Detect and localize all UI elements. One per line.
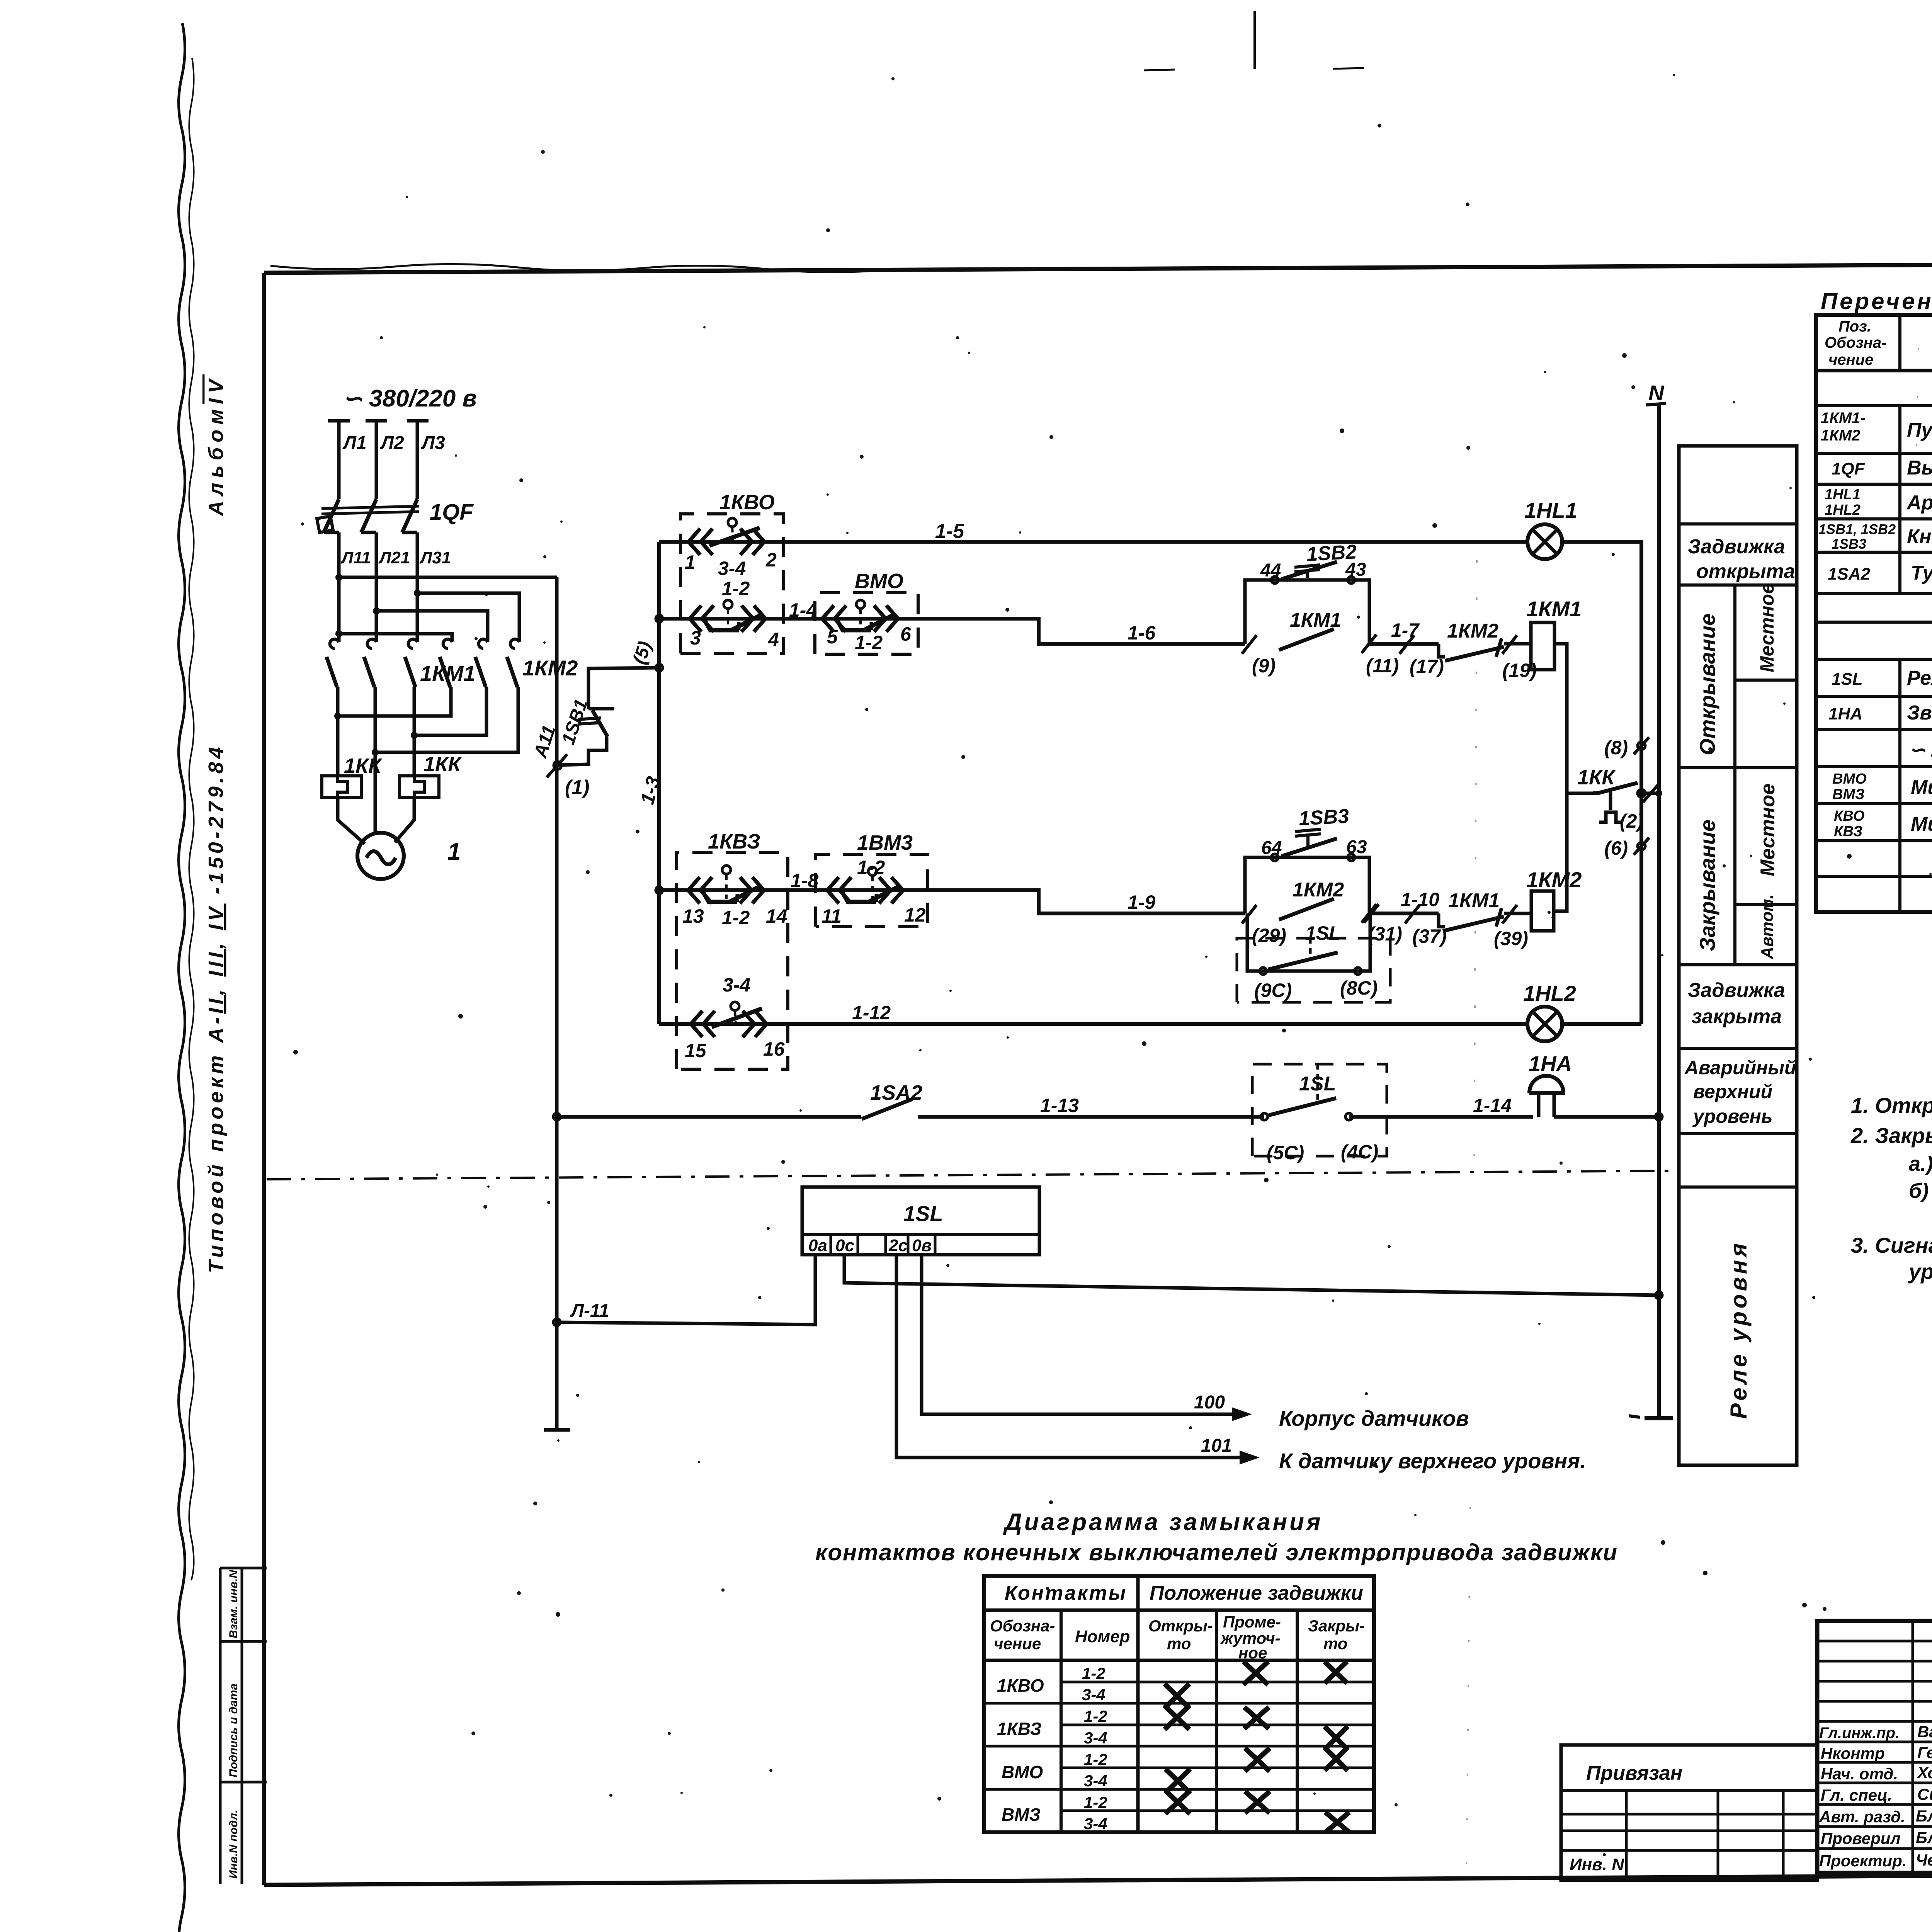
junction on L31: [414, 590, 421, 597]
svg-text:N: N: [1648, 381, 1665, 405]
svg-text:Герасимова: Герасимова: [1917, 1743, 1932, 1762]
level sensor 1SL terminal box: [802, 1187, 1039, 1255]
wire 1-7: [1369, 642, 1439, 646]
X marks closure diagram: [1165, 1662, 1349, 1832]
wire phase L1 top: [328, 421, 350, 499]
svg-text:Открывание: Открывание: [1695, 614, 1719, 755]
svg-text:16: 16: [763, 1038, 785, 1060]
svg-text:1-6: 1-6: [1128, 622, 1156, 644]
svg-text:4: 4: [768, 629, 779, 650]
svg-text:Инв.N подл.: Инв.N подл.: [227, 1810, 240, 1879]
svg-text:101: 101: [1201, 1435, 1232, 1456]
svg-text:Реле уровня: Реле уровня: [1726, 1240, 1752, 1419]
svg-text:то: то: [1323, 1634, 1347, 1653]
svg-text:Тумблер ТВ1-1: Тумблер ТВ1-1: [1911, 562, 1932, 584]
wire branch L21 to 1KM2 pole5: [376, 611, 488, 641]
svg-text:11: 11: [821, 905, 842, 927]
svg-text:1-12: 1-12: [852, 1002, 891, 1024]
svg-text:Поз.: Поз.: [1838, 318, 1871, 335]
svg-text:Л2: Л2: [380, 433, 404, 453]
svg-text:1-9: 1-9: [1128, 891, 1155, 913]
1SL auto dashed box: [1237, 938, 1390, 1002]
terminal (8) slash: [1634, 737, 1649, 754]
svg-text:1-10: 1-10: [1401, 889, 1439, 910]
junction 0c/bus: [1655, 1292, 1662, 1299]
svg-text:Взам. инв.N: Взам. инв.N: [227, 1570, 240, 1638]
svg-text:Положение задвижки: Положение задвижки: [1150, 1582, 1363, 1604]
svg-text:1КМ2: 1КМ2: [1526, 867, 1582, 892]
svg-text:1КМ2: 1КМ2: [1821, 427, 1860, 444]
separator dash-dot line: [267, 1171, 1677, 1179]
svg-text:чение: чение: [1828, 351, 1873, 368]
circuit breaker 1QF: [317, 499, 419, 532]
svg-text:3. Сигнализация положения з: 3. Сигнализация положения задвижки и пов…: [1851, 1233, 1932, 1257]
svg-text:1: 1: [447, 838, 461, 865]
svg-text:Обозна-: Обозна-: [1825, 334, 1886, 351]
contactor 1KM2 main contacts: [440, 639, 519, 687]
svg-text:1-2: 1-2: [1084, 1750, 1107, 1769]
svg-text:1КМ2: 1КМ2: [522, 656, 578, 680]
svg-text:Васильев: Васильев: [1917, 1723, 1932, 1741]
svg-text:Обозна-: Обозна-: [990, 1617, 1055, 1635]
lamp 1HL2: [1527, 1007, 1562, 1041]
svg-text:Задвижка: Задвижка: [1688, 979, 1785, 1002]
svg-text:КВЗ: КВЗ: [1834, 823, 1862, 840]
svg-text:(4С): (4С): [1341, 1141, 1378, 1163]
bus N top mark: [1646, 403, 1666, 405]
svg-text:(8С): (8С): [1340, 977, 1378, 999]
svg-text:1SВ3: 1SВ3: [1832, 536, 1866, 552]
svg-text:(39): (39): [1494, 928, 1528, 949]
svg-text:Привязан: Привязан: [1586, 1762, 1682, 1784]
junction pole1 bottom: [334, 713, 341, 719]
svg-text:1: 1: [685, 551, 696, 573]
svg-text:контактов конечных выключате: контактов конечных выключателей электроп…: [815, 1539, 1618, 1565]
contactor 1KM1 main contacts: [327, 639, 417, 687]
wire A-11: [557, 1255, 815, 1325]
svg-text:Местное: Местное: [1757, 784, 1779, 876]
svg-text:Блувштейн: Блувштейн: [1916, 1807, 1932, 1825]
svg-text:63: 63: [1346, 837, 1367, 857]
terminal slash at bus side: [1643, 784, 1658, 802]
svg-text:(9): (9): [1252, 655, 1276, 677]
svg-text:1-2: 1-2: [855, 632, 883, 653]
contact 1KM2 NC interlock: [1439, 638, 1531, 661]
wire pole3 down to thermal: [413, 735, 416, 776]
svg-text:Черкасова: Черкасова: [1916, 1851, 1932, 1869]
svg-text:43: 43: [1345, 560, 1366, 580]
left bottom rotated cells: [220, 1568, 267, 1884]
svg-text:1КМ1: 1КМ1: [1448, 889, 1500, 912]
svg-text:1-2: 1-2: [1084, 1793, 1107, 1811]
svg-text:1ВМ3: 1ВМ3: [857, 831, 913, 854]
svg-text:Пускатель магнитный ПМЕ-114: Пускатель магнитный ПМЕ-114: [1907, 419, 1932, 441]
wire lamp 1HL2 to inner vertical: [1562, 1022, 1641, 1026]
pushbutton 1SB3 branch: [1245, 829, 1369, 913]
wire crossover pole3-pole5: [414, 687, 486, 735]
svg-text:1КК: 1КК: [344, 754, 383, 777]
junction 1KK to inner vertical: [1638, 789, 1645, 797]
contact 1KM1 aux (seal-in): [1242, 629, 1376, 654]
svg-text:Хомяк: Хомяк: [1917, 1764, 1932, 1782]
relay contact 1SL auto branch: [1247, 913, 1370, 975]
svg-text:1-14: 1-14: [1473, 1095, 1512, 1116]
lamp 1HL1: [1527, 524, 1562, 559]
svg-text:1КВО: 1КВО: [997, 1675, 1044, 1696]
svg-text:ВМО: ВМО: [855, 570, 903, 593]
svg-text:1КВО: 1КВО: [719, 491, 775, 514]
wire crossover pole2-pole6: [375, 687, 518, 752]
svg-text:3: 3: [690, 627, 701, 649]
svg-text:Диаграмма замыкания: Диаграмма замыкания: [1003, 1509, 1323, 1536]
microswitch 1VM3 dashed box: [816, 854, 928, 927]
svg-text:АльбомIV: АльбомIV: [204, 374, 228, 517]
contact 1VM3: [827, 867, 903, 903]
svg-text:Микропереключатели: Микропереключатели: [1911, 813, 1932, 835]
A11 bottom rail terminator: [544, 1428, 570, 1432]
junction 1-3/(5): [656, 664, 663, 671]
svg-text:1НL2: 1НL2: [1825, 502, 1861, 518]
svg-text:1КК: 1КК: [1577, 766, 1616, 789]
terminal (17) slash: [1400, 635, 1414, 654]
contact 1KM2 aux (seal-in): [1242, 899, 1376, 923]
contact 1KVO 1-2: [690, 600, 765, 632]
contact 1KVZ 1-2: [688, 866, 764, 903]
svg-text:∽ 220 в: ∽ 220 в: [1909, 739, 1932, 761]
svg-text:1HL1: 1HL1: [1524, 498, 1577, 522]
svg-text:3-4: 3-4: [1084, 1815, 1107, 1833]
svg-text:б) автоматическое, в зависим: б) автоматическое, в зависимости от уров…: [1909, 1179, 1932, 1202]
svg-text:1КМ1-: 1КМ1-: [1821, 410, 1866, 427]
terminal (39) slash: [1502, 905, 1517, 923]
svg-text:1-2: 1-2: [722, 578, 750, 599]
svg-text:∽ 380/220 в: ∽ 380/220 в: [342, 385, 477, 412]
wire phase drops below breaker: [339, 532, 417, 642]
contact 1KM1 NC interlock: [1439, 908, 1531, 930]
svg-text:Кнопка управления КЕ011: Кнопка управления КЕ011: [1907, 526, 1932, 548]
svg-text:1HL2: 1HL2: [1523, 981, 1576, 1005]
wire rung 1-4 / 1-6: [659, 619, 1245, 644]
svg-text:закрыта: закрыта: [1692, 1005, 1782, 1028]
wire A11 vertical feed: [555, 577, 559, 1428]
svg-text:1SВ3: 1SВ3: [1298, 805, 1350, 830]
svg-text:13: 13: [682, 905, 704, 927]
svg-text:1-2: 1-2: [1084, 1707, 1107, 1725]
motor M1: [357, 833, 404, 879]
svg-text:ВМО: ВМО: [1832, 771, 1867, 787]
junction bell/bus: [1655, 1113, 1662, 1120]
junction A11/A-11: [553, 1319, 560, 1326]
thermal relay 1KK left: [322, 776, 361, 798]
svg-text:Гл.инж.пр.: Гл.инж.пр.: [1819, 1725, 1900, 1742]
terminal (6) slash: [1634, 838, 1649, 855]
svg-text:Инв. N: Инв. N: [1570, 1855, 1624, 1874]
wire rung 1-12: [659, 1022, 1528, 1026]
svg-text:1КВЗ: 1КВЗ: [997, 1719, 1042, 1739]
junction on L21: [373, 607, 380, 614]
svg-text:Сизинцев: Сизинцев: [1917, 1785, 1932, 1803]
privjazan table: [1561, 1745, 1817, 1880]
svg-text:Проме-: Проме-: [1223, 1613, 1281, 1631]
wire coil 1KM1 to 1KK: [1554, 644, 1593, 793]
svg-text:1SА2: 1SА2: [870, 1081, 922, 1104]
svg-text:(1): (1): [565, 776, 590, 799]
svg-text:1НА: 1НА: [1828, 704, 1862, 723]
svg-text:44: 44: [1260, 560, 1281, 581]
svg-text:1-2: 1-2: [722, 907, 750, 929]
wire lamp 1HL1 to inner vertical: [1562, 542, 1641, 1024]
svg-text:1КМ2: 1КМ2: [1293, 879, 1344, 901]
svg-text:Перечень элементов принципиа: Перечень элементов принципиальной схемы: [1821, 288, 1932, 314]
contact 1KVZ 3-4: [691, 1002, 767, 1037]
svg-text:1QF: 1QF: [1832, 459, 1865, 478]
svg-text:0с: 0с: [835, 1236, 854, 1255]
svg-text:14: 14: [766, 905, 787, 927]
svg-text:(37): (37): [1412, 925, 1447, 947]
svg-text:уровень: уровень: [1692, 1105, 1773, 1127]
svg-text:1НА: 1НА: [1529, 1051, 1572, 1076]
svg-text:Нконтр: Нконтр: [1821, 1744, 1885, 1762]
svg-text:Л-11: Л-11: [570, 1301, 609, 1321]
svg-text:ное: ное: [1238, 1644, 1267, 1662]
svg-text:3-4: 3-4: [1082, 1685, 1105, 1704]
svg-text:КВО: КВО: [1834, 808, 1864, 824]
svg-text:3-4: 3-4: [1084, 1729, 1107, 1747]
junction on L11 lower: [335, 630, 342, 637]
wire 101 upper level sensor: [896, 1255, 1260, 1464]
bus 1-3 vertical: [657, 542, 661, 1024]
svg-text:Закры-: Закры-: [1308, 1617, 1365, 1635]
svg-text:1-7: 1-7: [1391, 619, 1420, 641]
svg-text:6: 6: [900, 623, 912, 645]
wire 1-13 continue: [918, 1115, 1264, 1119]
svg-text:2. Закрытие задвижки: 2. Закрытие задвижки: [1850, 1123, 1932, 1148]
thermal relay 1KK right: [400, 776, 439, 798]
svg-text:Л21: Л21: [378, 548, 410, 567]
bus N bottom rail terminator: [1645, 1416, 1673, 1420]
svg-text:Выключатель автоматический АП: Выключатель автоматический АП50-3МТ: [1907, 457, 1932, 479]
svg-text:64: 64: [1261, 838, 1282, 858]
wire 100 sensor body: [922, 1255, 1252, 1421]
svg-text:Авт. разд.: Авт. разд.: [1819, 1808, 1905, 1826]
limit switch 1KVZ dashed box: [677, 852, 788, 1069]
wire rung 1-13: [557, 1115, 861, 1119]
relay contact 1SL main: [1261, 1098, 1352, 1120]
svg-text:(6): (6): [1604, 837, 1628, 859]
svg-text:1КМ1: 1КМ1: [1526, 597, 1582, 621]
svg-text:чение: чение: [994, 1634, 1041, 1653]
svg-text:1SА2: 1SА2: [1828, 565, 1871, 583]
junction pole3 bottom: [411, 732, 418, 739]
1SL main dashed box: [1252, 1064, 1387, 1156]
svg-text:Подпись и дата: Подпись и дата: [227, 1684, 240, 1777]
wire rung 1-5: [659, 540, 1528, 544]
torn paper left edge: [179, 23, 185, 1932]
svg-text:1SL: 1SL: [1832, 670, 1863, 689]
svg-text:1SL: 1SL: [1299, 1073, 1336, 1095]
wire 1-14: [1349, 1115, 1533, 1119]
wire 1-10: [1369, 912, 1439, 915]
svg-text:100: 100: [1194, 1392, 1225, 1413]
wire 1KK to bus: [1638, 792, 1659, 795]
svg-text:0в: 0в: [912, 1236, 932, 1255]
junction A11/1-13: [553, 1113, 560, 1120]
svg-text:(2): (2): [1620, 810, 1643, 832]
svg-text:Проверил: Проверил: [1821, 1829, 1901, 1847]
svg-text:1КМ1: 1КМ1: [1290, 609, 1341, 631]
svg-text:открыта: открыта: [1696, 560, 1795, 583]
svg-text:Задвижка: Задвижка: [1688, 536, 1785, 558]
drawing frame border: [264, 262, 1932, 273]
svg-text:Типовой проект А-II, III: Типовой проект А-II, III, IV -150-279.84: [204, 743, 228, 1273]
svg-text:Л1: Л1: [342, 433, 367, 453]
svg-text:1-2: 1-2: [1082, 1664, 1105, 1682]
coil 1KM1: [1531, 622, 1554, 670]
svg-text:Звонок переменного тока ЗВП: Звонок переменного тока ЗВП 220;: [1907, 702, 1932, 724]
bell 1HA: [1529, 1076, 1563, 1117]
svg-text:1-5: 1-5: [935, 520, 964, 543]
svg-text:(8): (8): [1604, 737, 1628, 759]
bus N vertical: [1657, 404, 1661, 1417]
svg-text:Автом.: Автом.: [1758, 894, 1777, 959]
fold mark top center: [1253, 11, 1256, 69]
svg-text:1КМ2: 1КМ2: [1447, 620, 1498, 642]
toggle switch 1SA2: [862, 1099, 913, 1119]
svg-text:12: 12: [904, 904, 926, 926]
wire branch L31 to 1KM2 pole6: [417, 593, 519, 641]
svg-text:Л3: Л3: [421, 433, 445, 453]
svg-text:(9С): (9С): [1254, 980, 1292, 1001]
terminal (37) slash: [1405, 905, 1420, 923]
svg-text:Контакты: Контакты: [1005, 1582, 1127, 1604]
wire phase L2 top: [366, 421, 387, 499]
svg-text:1. Открытие задвижки вруч: 1. Открытие задвижки вручную.: [1851, 1093, 1932, 1117]
svg-text:Гл. спец.: Гл. спец.: [1821, 1786, 1892, 1804]
svg-text:верхний: верхний: [1693, 1081, 1772, 1102]
terminal (1) slash on A11: [547, 754, 567, 777]
svg-text:(5С): (5С): [1267, 1142, 1304, 1163]
svg-text:1SL: 1SL: [903, 1201, 943, 1226]
svg-text:1КК: 1КК: [423, 753, 462, 776]
microswitch VMO dashed box: [815, 593, 918, 654]
wire pole2 down to motor: [374, 752, 377, 833]
wire crossover pole1-pole4: [338, 687, 451, 716]
wire branch L11 to 1KM2 pole4: [339, 634, 452, 641]
svg-text:1-13: 1-13: [1040, 1095, 1079, 1116]
svg-text:Микропереключатели: Микропереключатели: [1911, 776, 1932, 799]
svg-text:1КВЗ: 1КВЗ: [708, 830, 760, 853]
wire coil 1KM2 up to 1KK: [1554, 793, 1567, 911]
svg-text:Откры-: Откры-: [1148, 1617, 1213, 1635]
svg-text:1SВ1, 1SВ2: 1SВ1, 1SВ2: [1818, 521, 1896, 537]
pushbutton 1SB2 branch: [1245, 562, 1369, 644]
pushbutton 1SB1 (NC stop): [557, 668, 659, 765]
svg-text:(31): (31): [1368, 923, 1402, 945]
svg-text:2с: 2с: [888, 1236, 908, 1255]
svg-text:3-4: 3-4: [1084, 1772, 1107, 1790]
thermal contact 1KK aux: [1593, 783, 1638, 822]
wire to motor: [338, 798, 414, 844]
junction 1-3/1-9 rung: [656, 887, 663, 894]
coil 1KM2: [1531, 891, 1554, 931]
svg-text:а.) вручную: а.) вручную: [1909, 1152, 1932, 1175]
terminal (19) slash: [1502, 635, 1517, 654]
svg-text:Реле уровня ЭРСУ-3, ∽ 220в: Реле уровня ЭРСУ-3, ∽ 220в: [1907, 667, 1932, 689]
limit switch 1KVO dashed box: [680, 514, 784, 653]
svg-text:ВМО: ВМО: [1002, 1762, 1043, 1782]
junction 1-3/1-2 rung: [656, 615, 663, 622]
svg-text:(11): (11): [1366, 655, 1399, 677]
svg-text:Нач. отд.: Нач. отд.: [1821, 1765, 1898, 1783]
crease faint line: [1474, 560, 1477, 1182]
svg-text:ВМЗ: ВМЗ: [1832, 786, 1865, 803]
svg-text:Номер: Номер: [1075, 1627, 1130, 1646]
svg-text:Л31: Л31: [419, 548, 451, 567]
svg-text:Блувштейн: Блувштейн: [1916, 1828, 1932, 1847]
junction pole2 bottom: [372, 749, 379, 756]
svg-text:Корпус датчиков: Корпус датчиков: [1279, 1406, 1469, 1430]
svg-text:Закрывание: Закрывание: [1695, 820, 1719, 951]
svg-text:0а: 0а: [808, 1236, 827, 1255]
junction on L11: [335, 574, 342, 581]
svg-text:(29): (29): [1252, 925, 1286, 946]
svg-text:Л11: Л11: [340, 548, 371, 567]
svg-text:15: 15: [685, 1040, 707, 1061]
wire 0c to bus N: [844, 1255, 1659, 1295]
svg-text:(17): (17): [1410, 656, 1444, 677]
svg-text:Местное: Местное: [1756, 583, 1778, 672]
svg-text:2: 2: [765, 549, 777, 571]
terminal (31) slash: [1364, 904, 1379, 923]
svg-text:5: 5: [827, 626, 838, 648]
svg-text:то: то: [1167, 1634, 1191, 1653]
svg-text:уровня стоков.: уровня стоков.: [1908, 1259, 1932, 1284]
contact 1KVO 3-4: [689, 518, 764, 555]
svg-text:Проектир.: Проектир.: [1819, 1852, 1907, 1870]
wire rung 1-8 / 1-9: [659, 890, 1245, 913]
wire phase L3 top: [407, 421, 429, 499]
wire branch to A11 control feed: [339, 576, 557, 579]
svg-text:ВМЗ: ВМЗ: [1002, 1804, 1041, 1825]
svg-text:К датчику верхнего уровня.: К датчику верхнего уровня.: [1279, 1449, 1586, 1473]
svg-text:3-4: 3-4: [718, 558, 746, 579]
svg-text:Аварийный: Аварийный: [1684, 1057, 1796, 1078]
wire pole1 down to thermal: [336, 716, 340, 776]
junction on bus N: [1655, 790, 1662, 797]
contact VMO 1-2: [822, 600, 898, 632]
svg-text:1НL1: 1НL1: [1825, 486, 1861, 503]
svg-text:1-4: 1-4: [789, 599, 817, 621]
wire bell to bus: [1554, 1115, 1659, 1119]
svg-text:1QF: 1QF: [430, 500, 474, 525]
svg-text:3-4: 3-4: [723, 974, 750, 996]
svg-text:Арматура сигнальная АЕ3111У3: Арматура сигнальная АЕ3111У3: [1906, 492, 1932, 514]
